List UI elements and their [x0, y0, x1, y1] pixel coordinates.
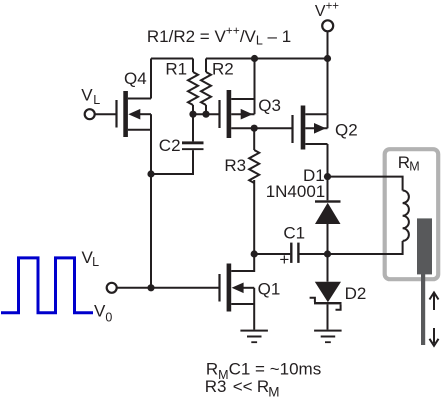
svg-text:V: V	[81, 85, 93, 104]
wire V++ drop to Q2 source	[327, 31, 329, 114]
svg-text:L: L	[93, 93, 100, 107]
node Q4 source / C2	[147, 170, 154, 177]
wire Q4 drain riser	[150, 59, 152, 99]
resistor R2	[201, 59, 211, 115]
wire C1 left	[254, 253, 290, 255]
svg-text:R1/R2 = V++/VL – 1: R1/R2 = V++/VL – 1	[147, 24, 291, 48]
svg-text:V: V	[94, 301, 106, 320]
wire top rail left (Q4 drain to R1)	[151, 58, 193, 60]
transistor Q3	[220, 90, 255, 138]
label V_L input	[81, 85, 100, 107]
node Q2 drain / D1 / relay top	[324, 173, 331, 180]
svg-text:0: 0	[105, 310, 112, 324]
arrow down (armature motion)	[430, 328, 439, 346]
wire V_L input to Q4 gate	[95, 113, 117, 115]
node C1 left / R3 / Q1 drain	[251, 250, 258, 257]
transistor Q2	[293, 106, 328, 150]
label RM relay	[398, 153, 420, 174]
terminal V++	[322, 20, 333, 31]
svg-text:++: ++	[326, 1, 340, 13]
svg-text:L: L	[92, 255, 99, 269]
svg-text:R1: R1	[165, 60, 187, 79]
node top rail / V++ drop	[324, 55, 331, 62]
svg-text:+: +	[279, 250, 289, 269]
relay body box	[385, 149, 439, 279]
ground below D2	[314, 330, 342, 343]
terminal V_L input	[85, 109, 95, 119]
terminal input V0	[107, 283, 117, 293]
svg-text:Q2: Q2	[335, 121, 358, 140]
label V++ supply	[315, 1, 339, 20]
wire relay coil top lead	[328, 177, 403, 191]
ground below Q1	[240, 330, 268, 343]
wire left column down to input row	[150, 174, 152, 288]
waveform square wave VL	[1, 258, 93, 313]
svg-text:C1: C1	[283, 224, 305, 243]
resistor R3	[249, 128, 259, 254]
relay armature stem	[421, 274, 425, 345]
diode D1	[315, 177, 341, 254]
label VL waveform high	[82, 248, 100, 269]
svg-text:M: M	[409, 160, 419, 174]
wire input row to Q1 gate	[117, 287, 220, 289]
svg-text:Q3: Q3	[258, 96, 281, 115]
svg-text:R3: R3	[205, 377, 227, 396]
wire R1/R2 bottom row to Q3 gate	[193, 113, 220, 115]
svg-text:D2: D2	[345, 284, 367, 303]
relay armature plunger	[417, 218, 432, 274]
node C1 right / D1 / D2 / relay bottom	[324, 250, 331, 257]
wire Q3 source riser	[254, 59, 256, 115]
node input row / left column	[147, 284, 154, 291]
wire Q1 drain riser	[231, 254, 254, 271]
svg-text:Q1: Q1	[258, 279, 281, 298]
wire Q4 source drop	[150, 114, 152, 174]
wire top rail right (R2 to V++)	[206, 58, 328, 60]
wire Q3 drain row to Q2 gate	[231, 127, 292, 129]
capacitor C2	[151, 114, 204, 174]
svg-text:R: R	[398, 153, 410, 172]
svg-text:<<: <<	[233, 377, 253, 396]
svg-text:V: V	[315, 3, 326, 20]
wire relay coil bottom lead	[328, 241, 403, 254]
node top rail / Q3 riser	[251, 55, 258, 62]
wire Q1 source to ground	[253, 304, 255, 330]
label V0 waveform low	[94, 301, 112, 324]
svg-text:R3: R3	[224, 156, 246, 175]
transistor Q1	[220, 264, 255, 312]
svg-text:1N4001: 1N4001	[266, 182, 326, 201]
svg-text:R2: R2	[212, 60, 234, 79]
label equation R1/R2	[147, 24, 291, 48]
resistor R1	[188, 59, 198, 115]
diode D2 (zener)	[310, 254, 342, 330]
wire Q2 drain drop	[327, 144, 329, 177]
node R1 bottom	[189, 111, 196, 118]
inductor relay coil RM	[403, 191, 409, 241]
arrow up (armature motion)	[430, 293, 439, 311]
svg-text:Q4: Q4	[124, 69, 147, 88]
svg-text:C2: C2	[159, 136, 181, 155]
svg-text:M: M	[268, 385, 279, 400]
transistor Q4	[117, 91, 152, 137]
capacitor C1	[290, 243, 327, 263]
node R2 bottom	[202, 111, 209, 118]
node Q3 drain / R3	[251, 125, 258, 132]
